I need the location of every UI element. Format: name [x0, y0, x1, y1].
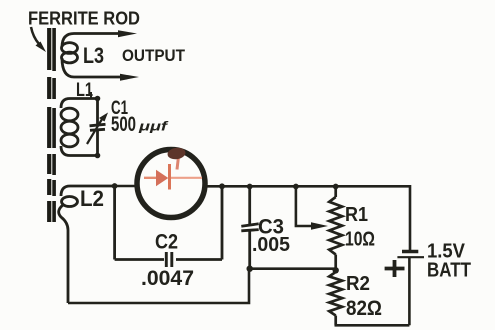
svg-text:OUTPUT: OUTPUT — [122, 47, 185, 65]
svg-text:.005: .005 — [252, 234, 290, 256]
coil L1 tank loop — [61, 99, 98, 156]
node wiper top — [293, 184, 299, 190]
svg-text:BATT: BATT — [427, 260, 471, 282]
coil L3 — [62, 34, 122, 78]
resistor R1 (pot) — [329, 187, 342, 271]
output arrow top — [118, 30, 137, 37]
svg-text:L2: L2 — [80, 186, 104, 211]
wiper branch to R1 — [296, 187, 313, 227]
svg-text:82Ω: 82Ω — [346, 297, 382, 320]
node C2 right top — [219, 183, 225, 189]
svg-text:FERRITE ROD: FERRITE ROD — [28, 9, 140, 29]
capacitor C2 plates — [166, 252, 172, 267]
node R1 top — [333, 184, 339, 190]
capacitor C3 branch — [241, 186, 258, 268]
battery B1 plates — [402, 250, 418, 253]
svg-text:R1: R1 — [345, 204, 368, 226]
C1 adjust arrow — [87, 118, 103, 145]
L1 label tick — [90, 92, 92, 99]
dark smudge on diode top — [167, 147, 186, 161]
capacitor C2 branch — [115, 186, 222, 260]
svg-text:.0047: .0047 — [141, 267, 194, 290]
svg-text:10Ω: 10Ω — [345, 229, 375, 251]
wire L2 to tunnel diode — [115, 185, 139, 188]
svg-text:500: 500 — [111, 112, 136, 136]
svg-text:C2: C2 — [155, 231, 178, 254]
svg-text:μμf: μμf — [138, 120, 170, 134]
node C3 top — [247, 184, 253, 190]
variable capacitor C1 plates — [90, 124, 106, 130]
resistor R2 — [329, 272, 342, 325]
battery bottom lead — [408, 258, 411, 325]
svg-text:L3: L3 — [83, 43, 104, 68]
node dots of L1 tank — [95, 96, 101, 102]
node R1/R2 junction — [333, 267, 339, 273]
node A (C2 left) — [112, 183, 118, 189]
wire C3 bottom to R1/R2 junction — [250, 267, 336, 270]
output arrow bottom — [120, 74, 139, 81]
bottom wire R2 to battery — [335, 324, 410, 327]
coil L2 — [59, 186, 115, 303]
pointer arrow to ferrite rod — [31, 27, 39, 44]
wire diode to right side — [205, 186, 411, 250]
battery plus sign — [385, 260, 405, 277]
ferrite rod core (dashed double bar) — [49, 28, 54, 222]
node C3 bottom — [247, 266, 253, 272]
tunnel diode red symbol — [144, 157, 202, 190]
svg-text:R2: R2 — [346, 273, 370, 295]
tunnel diode TD1 (circle) — [137, 150, 205, 218]
bottom return wire from L2 — [68, 269, 249, 303]
